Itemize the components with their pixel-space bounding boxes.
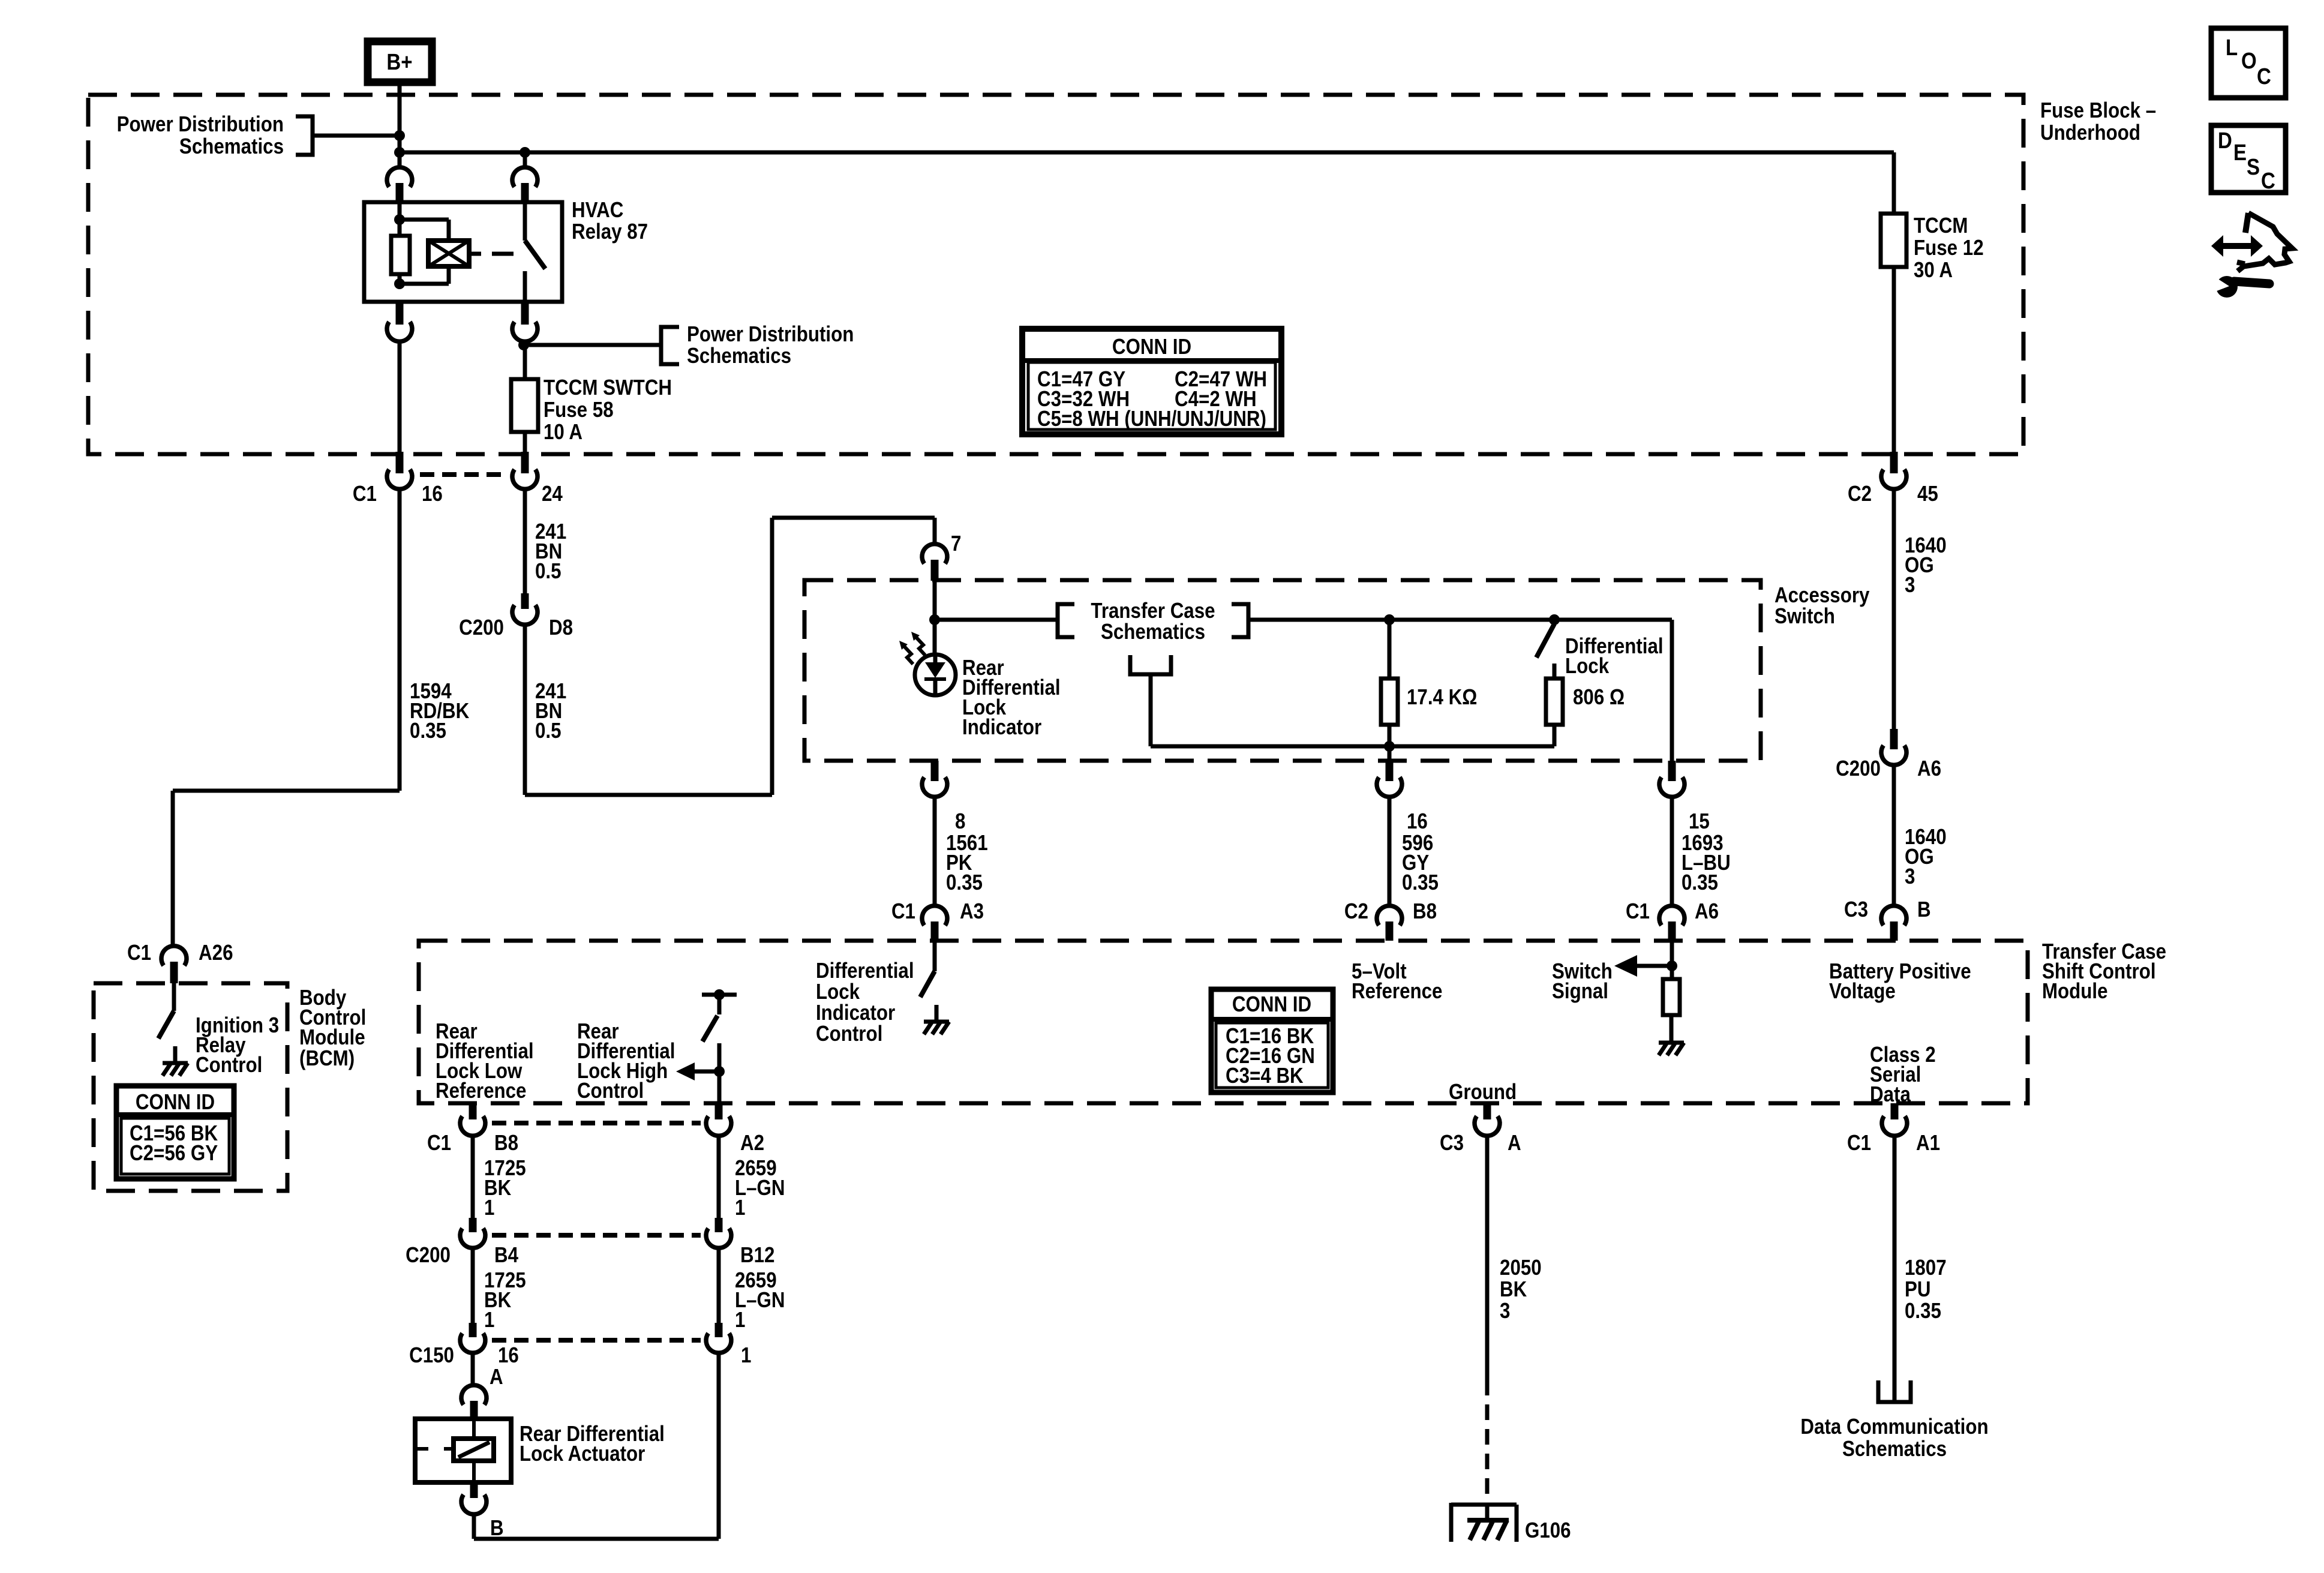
svg-text:Signal: Signal [1552,979,1608,1004]
svg-text:30 A: 30 A [1914,258,1953,283]
svg-text:1: 1 [735,1308,745,1332]
relay coil winding symbol [400,220,469,284]
svg-text:3: 3 [1905,864,1915,889]
connector C2 pin 45 (fuse block) [1848,452,1938,506]
svg-text:24: 24 [542,482,563,506]
connector C1 pin 24 (fuse block) [512,452,563,506]
junction to fuse 58 and power distribution bracket [518,340,660,350]
svg-text:Fuse Block –: Fuse Block – [2040,98,2156,123]
svg-text:Lock Actuator: Lock Actuator [520,1442,645,1466]
junction to power distribution bracket [314,130,405,141]
svg-text:Fuse 58: Fuse 58 [544,398,614,422]
relay K HVAC Relay 87 box [364,198,648,302]
wire return to resistor bottoms [1151,674,1554,746]
svg-text:E: E [2233,140,2247,166]
wire LED to transfer case bracket [935,618,1058,622]
svg-text:3: 3 [1500,1299,1510,1323]
connector C1 pin A6 into module [1659,906,1685,941]
connector pin 8 below accessory box [922,761,947,797]
node B+ feed wire (horizontal bus to TCCM fuse) [394,147,1894,158]
connector C1 pin A6 (accessory switch) [1626,761,1731,924]
wire label 2659 L-GN 1 (upper) [719,1136,785,1220]
svg-text:CONN ID: CONN ID [1232,992,1311,1017]
relay switch contact 87 [525,202,545,302]
connector C1 pin A1 (module) [1847,1103,1940,1155]
relay actuation dashed link [469,252,514,256]
svg-text:C1: C1 [1847,1131,1871,1155]
connector into actuator pin A [461,1352,487,1419]
wire label 1725 BK 1 (lower) [473,1248,526,1332]
power node B+ [368,41,432,82]
svg-text:B: B [1917,897,1931,922]
label Data Communication Schematics [1800,1415,1988,1461]
svg-text:Control: Control [577,1079,644,1103]
svg-text:10 A: 10 A [544,420,582,445]
svg-text:(BCM): (BCM) [299,1046,355,1071]
svg-text:Schematics: Schematics [179,134,284,159]
svg-text:C200: C200 [406,1243,451,1268]
svg-text:Schematics: Schematics [1842,1437,1947,1461]
svg-text:HVAC: HVAC [572,198,623,223]
wire LED control down to module + connector C1 A3 [891,796,988,941]
ground G106 [1451,1503,1571,1543]
svg-text:1: 1 [741,1343,751,1368]
svg-text:16: 16 [1407,809,1428,834]
svg-text:C200: C200 [1836,757,1881,781]
svg-text:0.5: 0.5 [535,559,562,584]
label Rear Differential Lock High Control [577,1019,675,1103]
connector pin into HVAC relay switch (30) [512,152,538,203]
svg-text:Underhood: Underhood [2040,121,2140,145]
svg-text:PU: PU [1905,1277,1931,1302]
svg-text:S: S [2247,154,2260,180]
svg-text:0.35: 0.35 [1682,870,1718,895]
connector C3 pin B into module [1881,906,1906,941]
svg-text:G106: G106 [1525,1518,1571,1543]
svg-text:B8: B8 [1413,899,1437,924]
svg-text:A: A [490,1365,503,1389]
svg-text:TCCM: TCCM [1914,214,1968,238]
svg-text:B+: B+ [386,49,412,75]
svg-text:Schematics: Schematics [1101,620,1205,644]
label Battery Positive Voltage [1829,959,1971,1004]
mating half bracket (transfer case schematics return) [1130,655,1171,674]
legend box DESC [2211,125,2286,194]
wire label 241 BN 0.5 (lower) [535,679,566,743]
wire fuse58 to C200 [523,488,527,593]
wire C200-D8 to accessory switch pin 7 [525,518,935,795]
connector C3 pin A (module ground) [1440,1103,1521,1155]
connector C200 pin A6 [1836,729,1947,922]
connector C1 pin A3 into module [1377,906,1402,941]
wire label 1594 RD/BK 0.35 [410,679,470,743]
svg-text:Schematics: Schematics [687,344,791,368]
svg-text:Ground: Ground [1449,1080,1517,1104]
connector C200 pin B4 [406,1218,518,1268]
svg-text:1: 1 [484,1196,494,1220]
svg-text:1: 1 [735,1196,745,1220]
label Class 2 Serial Data [1870,1043,1936,1107]
connector C200 pin B12 [706,1218,774,1268]
svg-text:Fuse 12: Fuse 12 [1914,236,1984,260]
label 5-Volt Reference [1352,959,1442,1004]
wire battery positive: C2-45 down [1892,488,1896,729]
relay coil resistor [391,202,410,289]
mating half bracket data communication [1878,1380,1911,1402]
label Differential Lock Indicator Control [816,959,914,1046]
svg-text:D8: D8 [549,616,573,640]
svg-text:C: C [2261,168,2275,194]
svg-text:C3: C3 [1844,897,1868,922]
connector body dashed link C1 [420,472,509,477]
connector pin 7 (accessory switch) [922,532,961,581]
svg-text:2050: 2050 [1500,1256,1542,1280]
actuator M rear differential lock actuator [415,1419,665,1482]
svg-text:Indicator: Indicator [962,715,1041,740]
svg-text:B8: B8 [494,1131,518,1155]
reference bracket Transfer Case Schematics [1058,599,1248,644]
svg-text:C1: C1 [127,941,151,965]
svg-text:A6: A6 [1695,899,1719,924]
wire label 1640 OG 3 (upper) [1905,533,1947,598]
wire label 1725 BK 1 (upper) [473,1136,526,1220]
table CONN ID (fuse block) [1022,329,1281,434]
svg-text:B4: B4 [494,1243,518,1268]
svg-text:C3: C3 [1440,1131,1464,1155]
svg-text:C5=8 WH (UNH/UNJ/UNR): C5=8 WH (UNH/UNJ/UNR) [1037,407,1266,431]
switch signal arrow and pull resistor [1552,941,1684,1055]
wire B+ down to distribution junctions [398,81,402,167]
svg-text:C200: C200 [459,616,504,640]
switch Differential Lock [1536,614,1664,679]
svg-text:Lock: Lock [1565,654,1609,679]
svg-text:A26: A26 [199,941,233,965]
label Fuse Block - Underhood [2040,98,2156,145]
switch differential lock indicator control driver [920,941,949,1034]
table CONN ID (BCM) [116,1086,234,1179]
connector out of actuator pin B [461,1482,504,1541]
connector C150 pin 16/A [409,1323,519,1389]
svg-text:C2: C2 [1848,482,1872,506]
connector body dashed link C200 [492,1233,701,1238]
switch rear differential lock high control driver [676,989,737,1103]
connector C1 pin 16 (fuse block) [353,452,443,506]
resistor 806 ohm [1546,664,1625,746]
svg-text:Data Communication: Data Communication [1800,1415,1988,1439]
svg-text:3: 3 [1905,573,1915,598]
label Body Control Module (BCM) [299,986,366,1071]
svg-text:0.35: 0.35 [1402,870,1439,895]
svg-text:B: B [490,1516,504,1541]
svg-text:C3=4 BK: C3=4 BK [1226,1064,1304,1088]
svg-text:Control: Control [816,1022,882,1046]
svg-text:7: 7 [951,532,961,556]
svg-text:C1: C1 [353,482,377,506]
reference bracket Power Distribution Schematics (top-left) [117,112,313,159]
svg-text:A1: A1 [1916,1131,1940,1155]
connector C200 pin D8 [459,593,573,640]
label Accessory Switch [1774,583,1870,629]
reference bracket Power Distribution Schematics (middle) [661,322,854,368]
svg-text:TCCM SWTCH: TCCM SWTCH [544,376,672,400]
svg-text:0.5: 0.5 [535,719,562,743]
icon vehicle with arrow [2211,213,2292,271]
connector C150 pin 1 [706,1323,751,1368]
body control module dashed box [94,983,287,1191]
transfer case shift control module dashed box [419,941,2028,1103]
svg-text:Reference: Reference [1352,979,1442,1004]
svg-text:D: D [2218,128,2232,154]
icon wrench [2212,275,2269,298]
svg-text:B12: B12 [740,1243,774,1268]
fuse block - underhood dashed box [88,95,2023,454]
svg-text:CONN ID: CONN ID [1112,335,1191,359]
svg-text:A2: A2 [740,1131,764,1155]
svg-text:BK: BK [1500,1277,1527,1302]
label Ground [1449,1080,1517,1104]
resistor 17.4 Kohm [1381,614,1477,752]
svg-text:A3: A3 [960,899,984,924]
svg-text:0.35: 0.35 [946,870,983,895]
svg-text:15: 15 [1689,809,1710,834]
wire bracket to switch node [1248,618,1672,622]
svg-text:45: 45 [1917,482,1938,506]
connector C1 pin A2 (module exit) [706,1103,764,1155]
svg-text:Control: Control [196,1053,262,1077]
svg-text:C: C [2257,64,2271,89]
svg-text:C1: C1 [1626,899,1650,924]
svg-text:Data: Data [1870,1082,1911,1107]
wire label 1807 PU 0.35 [1894,1136,1947,1402]
svg-text:C2: C2 [1344,899,1368,924]
svg-text:CONN ID: CONN ID [136,1090,215,1115]
label Transfer Case Shift Control Module [2042,939,2166,1004]
svg-text:8: 8 [955,809,965,834]
svg-text:Power Distribution: Power Distribution [687,322,854,347]
svg-text:Reference: Reference [436,1079,526,1103]
wire label 2659 L-GN 1 (lower) [719,1248,785,1332]
wire label 241 BN 0.5 (upper) [535,520,566,584]
svg-text:C1: C1 [427,1131,451,1155]
svg-text:16: 16 [422,482,443,506]
accessory switch dashed box [804,580,1761,761]
svg-text:A: A [1508,1131,1521,1155]
svg-text:1807: 1807 [1905,1256,1947,1280]
connector body dashed link C150 [492,1338,701,1343]
connector C1 pin A26 into BCM [127,941,233,983]
connector pin out of relay coil (85) [387,303,412,452]
svg-text:C150: C150 [409,1343,454,1368]
svg-text:Module: Module [2042,979,2108,1004]
wire C1-16 down to BCM [173,488,400,946]
fuse F12 TCCM 30A [1881,152,1984,452]
wire label 2050 BK 3 [1487,1136,1542,1380]
svg-text:17.4 KΩ: 17.4 KΩ [1407,685,1477,710]
connector body dashed link C1 (module) [492,1121,701,1125]
svg-text:806 Ω: 806 Ω [1573,685,1625,710]
wire dashed to G106 [1485,1380,1490,1505]
svg-text:16: 16 [498,1343,519,1368]
svg-text:O: O [2241,48,2257,74]
connector pin out of relay switch (87) [512,303,538,345]
fuse F58 TCCM SWTCH 10A [511,345,672,452]
connector C1 pin B8 (module exit) [427,1103,518,1155]
svg-text:Switch: Switch [1774,604,1835,629]
svg-text:L: L [2226,35,2238,61]
connector pin into HVAC relay coil (86) [387,152,412,203]
svg-text:C2=56 GY: C2=56 GY [130,1141,218,1166]
svg-text:A6: A6 [1917,757,1941,781]
switch ignition 3 relay control [158,983,279,1077]
wire switch node down (switch signal) [1670,620,1674,761]
svg-text:C1: C1 [891,899,915,924]
svg-text:0.35: 0.35 [410,719,446,743]
svg-text:1: 1 [484,1308,494,1332]
LED rear differential lock indicator [899,632,1061,740]
connector C2 pin B8 (accessory switch) [1344,746,1439,924]
svg-text:Power Distribution: Power Distribution [117,112,284,137]
svg-text:Relay 87: Relay 87 [572,220,648,244]
label Rear Differential Lock Low Reference [436,1019,534,1103]
wire actuator B to C150 pin 1 [474,1352,719,1539]
table CONN ID (module) [1211,989,1333,1092]
svg-text:0.35: 0.35 [1905,1299,1941,1323]
wire pin7 to LED node [929,581,940,655]
legend box LOC [2211,28,2286,98]
svg-text:Voltage: Voltage [1829,979,1896,1004]
